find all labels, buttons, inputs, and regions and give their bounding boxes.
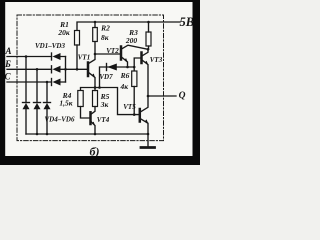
node R6 top [133,66,136,69]
transistor VT1 [88,54,95,88]
svg-text:3к: 3к [100,100,109,109]
node VD6 bottom [46,133,49,136]
wire dropper A [25,57,27,103]
wire R1 bottom [76,45,78,69]
wire input A [7,56,66,58]
wire R2 bottom to VT2 base [95,42,120,55]
transistor VT5 [140,96,149,146]
svg-text:8к: 8к [101,33,109,42]
transistor VT4 [91,112,96,134]
transistor VT3 [134,49,148,96]
node VD5 bottom [36,133,39,136]
node A [25,55,28,58]
svg-text:VD4–VD6: VD4–VD6 [45,116,75,124]
svg-text:С: С [4,72,11,82]
wire input B [7,68,66,70]
wire R3 top [148,22,150,32]
diode VD6 [44,103,51,135]
wire input C [7,81,66,83]
wire VD7 net [100,67,135,88]
resistor R1 [75,31,80,46]
wire R5 top [94,88,96,91]
svg-text:А: А [4,46,11,56]
wire dropper B [36,69,38,102]
svg-text:VD7: VD7 [99,73,113,81]
wire dropper C [46,82,48,103]
svg-text:VT1: VT1 [78,54,90,62]
node ground rail end [147,133,150,136]
node R6 bottom [133,113,136,116]
svg-text:R6: R6 [120,71,130,80]
svg-text:Q: Q [179,91,186,101]
dashed enclosure box [17,15,164,141]
resistor R5 [93,91,98,107]
node VD7 left [98,86,101,89]
wire R2 top [94,22,96,28]
svg-text:VD1–VD3: VD1–VD3 [35,42,65,50]
wire R4 bottom to VT4 base [81,107,90,119]
node VT4 emitter [94,133,97,136]
diode VD5 [34,103,41,135]
node R1 bottom [76,68,79,71]
wire R6 bottom [133,87,135,115]
node R2 bottom [94,53,97,56]
wire diode common vertical [65,57,67,83]
node diode common [64,68,67,71]
wire R3 bottom [148,46,150,49]
wire VT1 base [66,68,87,70]
svg-text:VT4: VT4 [97,116,110,124]
resistor R2 [93,28,98,42]
diode VD7 [107,64,117,71]
svg-text:1,5к: 1,5к [59,99,72,108]
node R3 bottom [147,48,150,51]
diode VD4 [23,103,30,135]
svg-text:VT5: VT5 [123,103,136,111]
svg-text:VT3: VT3 [150,56,163,64]
wire ground rail [26,133,148,135]
svg-text:R2: R2 [100,24,110,33]
node VT2 emitter [126,66,129,69]
wire R5 bottom [92,107,95,114]
diode VD2 [52,66,61,73]
resistor R4 [78,91,83,107]
node output [147,95,150,98]
resistor R3 [146,32,151,46]
svg-text:5В: 5В [180,15,195,29]
svg-text:4к: 4к [120,82,129,91]
svg-text:20к: 20к [57,28,70,37]
wire output Q [148,95,176,97]
svg-text:200: 200 [125,36,138,45]
wire supply rail to 5V [77,22,180,31]
ground [141,146,155,149]
svg-text:VT2: VT2 [106,47,119,55]
node R2 top [94,21,97,24]
node B [36,68,39,71]
node R3 top [147,21,150,24]
wire VT1 collector to R2 node [94,86,97,89]
diode VD3 [52,79,61,86]
resistor R6 [132,71,137,87]
diode VD1 [52,53,61,60]
border frame [0,0,200,165]
node C [46,81,49,84]
transistor VT2 [121,45,148,67]
wire W1 node [81,88,139,115]
